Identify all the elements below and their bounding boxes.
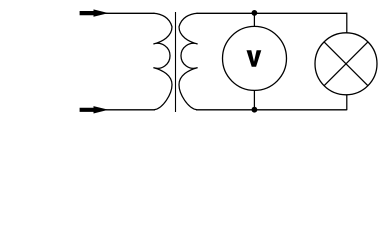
wire bottom rail: lamp corner to voltmeter junction: [254, 109, 346, 111]
lamp L1 cross line 2: [324, 42, 368, 86]
current arrow (bottom input lead): [80, 106, 109, 113]
node junction dot bottom: [252, 107, 258, 113]
transformer core: [175, 12, 177, 112]
wire top rail: voltmeter junction to lamp corner: [254, 12, 346, 14]
node junction dot top: [252, 10, 258, 16]
wire voltmeter bottom stub: [253, 90, 255, 109]
transformer T1 secondary winding: [179, 13, 198, 110]
wire lamp bottom lead: [346, 95, 348, 110]
wire top rail: secondary to voltmeter junction: [197, 12, 255, 14]
wire lamp top lead (corner down to lamp): [346, 13, 348, 33]
wire top input lead: [80, 12, 155, 14]
transformer T1 primary winding: [153, 13, 172, 110]
lamp L1 cross line 1: [324, 42, 368, 86]
wire voltmeter top stub: [253, 13, 255, 26]
current arrow (top input lead): [80, 9, 109, 16]
lamp L1 circle: [315, 33, 377, 95]
wire bottom rail: voltmeter junction to secondary: [196, 109, 254, 111]
voltmeter label V: [247, 50, 262, 66]
wire bottom input lead: [80, 109, 155, 111]
voltmeter U1 circle: [223, 26, 287, 90]
